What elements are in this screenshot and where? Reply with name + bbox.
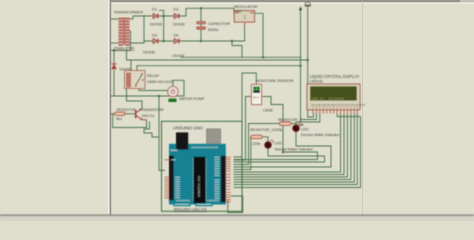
faint sheet template line: [362, 1, 363, 215]
svg-text:WATER PUMP: WATER PUMP: [179, 96, 205, 101]
wire sensor top loop: [234, 73, 256, 157]
svg-text:MOISTURE SENSOR: MOISTURE SENSOR: [256, 78, 294, 83]
wire sensor output: [262, 97, 283, 153]
resistor R3: [251, 135, 262, 138]
svg-text:LM016L: LM016L: [310, 79, 325, 84]
wire R3 feed vertical: [234, 137, 251, 170]
wire relay switch to motor: [139, 89, 167, 91]
wire LED1 top to power column: [296, 114, 320, 126]
wire power rail lower: [137, 65, 301, 67]
arduino board: [165, 129, 231, 206]
wire R2 feed vertical: [234, 124, 249, 165]
arduino left pin labels: [171, 160, 180, 198]
node rail terminal junction 2: [306, 59, 309, 62]
wire lcd bus 6: [234, 114, 357, 185]
arduino mcu chip: [194, 157, 206, 203]
wire sensor left pin loop: [234, 97, 251, 161]
svg-text:1: 1: [244, 15, 247, 21]
svg-text:ARDUINO UNO: ARDUINO UNO: [173, 126, 204, 131]
wire transformer bottom net horizontal: [111, 49, 131, 51]
arduino power jack: [207, 129, 221, 144]
wire regulator gnd drop: [244, 26, 246, 41]
wire LED1 cathode run: [234, 132, 331, 168]
wire rail left drop to tran bottom net: [126, 50, 128, 60]
wire vdd terminal column: [307, 7, 309, 118]
wire arduino ground feed vertical: [159, 96, 165, 170]
node regulator drop to gnd run: [262, 56, 265, 59]
node sensor output branch: [282, 151, 285, 154]
LED D6 excess: [293, 123, 302, 132]
svg-text:TRAN-2P3S: TRAN-2P3S: [114, 45, 135, 50]
wire R2 left feed: [249, 123, 280, 125]
svg-text:LED: LED: [275, 140, 283, 145]
wire transformer primary bottom lead: [111, 42, 120, 44]
svg-text:7805: 7805: [235, 9, 242, 13]
svg-text:OMIH-SH-112D: OMIH-SH-112D: [147, 79, 174, 84]
wire transformer primary top lead: [111, 18, 120, 20]
node capacitor top: [200, 7, 203, 10]
wire transformer secondary top to bridge: [128, 16, 186, 19]
resistor R2: [280, 122, 292, 125]
resistor R1: [115, 112, 125, 115]
svg-text:9k1: 9k1: [116, 116, 123, 121]
svg-text:220k: 220k: [274, 127, 282, 132]
wire left vertical with flyback diode upper: [113, 50, 115, 62]
wire transformer secondary mid tap: [128, 31, 131, 50]
svg-text:DIODE: DIODE: [173, 53, 186, 58]
arduino left pin stubs: [165, 160, 170, 198]
relay RL1: [125, 71, 146, 89]
wire left vertical with flyback diode lower: [113, 71, 115, 97]
wire R3 left feed: [250, 136, 253, 138]
wire resistor R1 left lead: [111, 113, 115, 115]
svg-text:40.0: 40.0: [253, 96, 259, 100]
svg-text:2N1711: 2N1711: [142, 113, 156, 118]
svg-text:CAPACITOR: CAPACITOR: [208, 21, 230, 26]
diode D2: [174, 14, 179, 19]
motor water pump: [168, 86, 179, 97]
arduino left header: [169, 156, 174, 201]
regulator U2 7805: [234, 11, 254, 26]
left panel divider highlight: [108, 0, 110, 215]
bottom border line: [0, 214, 474, 216]
svg-text:008 ml. 0123456: 008 ml. 0123456: [312, 97, 344, 102]
node diode D1 D2 junction: [162, 15, 165, 18]
diode D4: [174, 39, 179, 44]
svg-text:Excess Water Indicator: Excess Water Indicator: [301, 132, 340, 137]
wire R3 to LED2: [262, 137, 268, 142]
wire gnd run: [181, 56, 301, 58]
svg-text:LM35: LM35: [263, 107, 273, 112]
wire lcd pin2 jog: [301, 114, 317, 120]
wire power rail upper: [127, 59, 308, 61]
node bridge mid bottom: [162, 40, 165, 43]
wire relay pin to lower rail: [136, 66, 138, 71]
wire lcd bus 3: [234, 114, 347, 178]
wire R1 to transistor base: [125, 113, 135, 115]
wire relay coil bottom to transistor collector: [127, 89, 143, 109]
wire lcd bus 4: [234, 114, 351, 180]
bottom strip below border: [0, 216, 474, 221]
diode D1: [153, 14, 158, 19]
wire LED2 cathode run: [234, 149, 325, 163]
window top edge line: [110, 0, 474, 2]
wire bridge mid vertical: [163, 16, 165, 41]
wire R2 to LED1: [291, 124, 296, 126]
svg-text:VSS VDD VEE RS RW E D0 D1 D2 D: VSS VDD VEE RS RW E D0 D1 D2 D3 D4 D5 D6…: [311, 104, 366, 107]
svg-text:Normal Water Indicator: Normal Water Indicator: [275, 147, 314, 152]
power terminal bar: [305, 2, 312, 6]
arduino U1 subcircuit box: [162, 121, 243, 211]
wire regulator output to rail: [255, 13, 264, 57]
wire bridge bottom row: [144, 40, 245, 42]
wire capacitor vertical: [200, 8, 202, 41]
wire emitter loop: [113, 114, 147, 128]
arduino board top header dots: [191, 147, 218, 149]
capacitor C1 plates: [197, 22, 206, 30]
wire rectifier output up to regulator input: [186, 8, 237, 16]
LED D7 normal: [265, 139, 274, 148]
moisture sensor LM35: [250, 83, 262, 104]
arduino right pin stubs: [226, 157, 231, 202]
wire lcd bus 1: [234, 114, 341, 173]
wire staircase to arduino: [144, 122, 159, 137]
wire sensor net long horizontal: [234, 152, 318, 160]
node transformer bottom net: [113, 49, 116, 52]
node gnd step junction: [231, 40, 234, 43]
arduino usb connector: [176, 132, 188, 149]
ground terminal under motor: [169, 99, 177, 102]
svg-text:ARDUINO UNO R3: ARDUINO UNO R3: [174, 207, 208, 212]
svg-text:5000u: 5000u: [208, 27, 219, 32]
svg-text:RESISTOR: RESISTOR: [117, 107, 137, 112]
wire vdd to lcd pin1: [308, 114, 314, 118]
wire transformer secondary bottom to bridge left: [128, 16, 144, 44]
arduino reset text mark: [171, 150, 178, 151]
LCD LM016L: [307, 84, 366, 114]
transformer TR1: [118, 18, 129, 46]
wire gnd step down: [232, 41, 242, 57]
wire lcd bus 7 outer: [234, 114, 361, 188]
svg-text:TRANSFORMER: TRANSFORMER: [114, 10, 144, 15]
svg-text:LED.: LED.: [301, 127, 309, 132]
svg-text:RELAY: RELAY: [147, 73, 160, 78]
wire lcd bus 2: [234, 114, 344, 175]
wire stub above bridge top: [160, 10, 164, 16]
svg-text:DIODE: DIODE: [143, 49, 156, 54]
wire lcd bus 5: [234, 114, 354, 183]
arduino right pin labels: [215, 157, 220, 198]
left panel divider dark line: [110, 0, 112, 215]
node ground bottom run: [158, 95, 161, 98]
diode D3: [153, 39, 158, 44]
svg-text:220k: 220k: [252, 141, 260, 146]
svg-text:TRANSISTOR: TRANSISTOR: [139, 107, 164, 112]
wire motor top loop: [173, 80, 184, 96]
svg-text:DIODE: DIODE: [150, 22, 163, 27]
svg-text:RESISTOR_3: RESISTOR_3: [250, 127, 275, 132]
arduino board bottom header dots: [176, 200, 190, 202]
wire wrap under arduino: [228, 196, 243, 213]
arduino right header: [221, 156, 226, 202]
node rail terminal junction: [299, 64, 302, 67]
wire power arrow column: [300, 9, 302, 122]
transistor Q1 2N1711: [136, 109, 147, 120]
svg-text:simulino uno: simulino uno: [197, 176, 201, 197]
diode D5 flyback: [112, 64, 117, 69]
power terminal arrow: [299, 6, 302, 10]
wire relay coil pin to rail: [130, 60, 132, 71]
svg-text:DIODE: DIODE: [173, 22, 186, 27]
node capacitor bottom: [200, 40, 203, 43]
svg-text:DIODE: DIODE: [120, 67, 133, 72]
wire ground bottom run: [111, 95, 184, 97]
